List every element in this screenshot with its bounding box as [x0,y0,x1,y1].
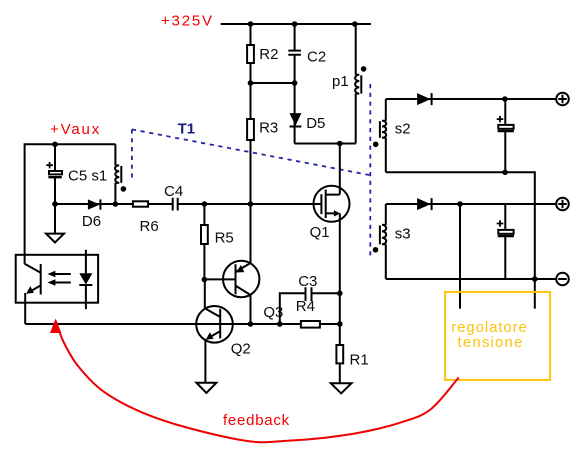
wire regulator right lead [534,279,536,309]
wire regulator left lead [459,204,461,309]
junction s2 cap top [502,96,508,102]
wire R2/R3 branch vertical [250,24,252,204]
feedback arrow curve [50,319,459,443]
wire C5 to ground [54,204,56,234]
wire primary bottom [295,143,356,145]
junction C3 left bottom [277,321,283,327]
resistor R3 [247,119,278,140]
svg-text:D5: D5 [306,115,325,132]
wire Q3 emitter [250,204,252,263]
terminal minus [556,273,569,286]
wire Q2 collector [204,280,206,309]
svg-text:C3: C3 [298,273,317,290]
diode s2 rectifier [417,93,432,105]
svg-text:C2: C2 [307,48,326,65]
svg-text:Q1: Q1 [310,224,330,241]
transformer core dashed diagonal [132,129,370,175]
wire R5 branch [203,204,205,280]
svg-text:Q2: Q2 [231,340,251,357]
wire Q1 drain [339,144,341,195]
svg-text:R2: R2 [259,46,278,63]
wire C2/D5 branch vertical [294,24,296,144]
wire s3 bottom [386,278,556,280]
svg-text:+325V: +325V [161,13,214,30]
resistor R4 [296,298,320,327]
svg-text:C4: C4 [164,183,183,200]
opto phototransistor [25,264,41,295]
wire +Vaux rail [25,144,116,264]
svg-text:tensione: tensione [458,334,524,351]
wire s2 top [386,98,556,100]
transistor Q2 [196,306,251,357]
junction Q3 collector bottom [248,321,254,327]
capacitor C5 [46,144,107,204]
terminal plus s2 [556,93,569,106]
junction C5-gnd [52,201,58,207]
wire +325V rail [221,23,371,25]
wire s3 top [386,203,556,205]
diode s3 rectifier [417,198,432,210]
junction R3 bottom [248,201,254,207]
transformer core dashed vertical left [131,129,133,182]
wire Q3 base [204,278,235,280]
transistor Q3 [223,261,283,321]
optocoupler box [16,255,98,303]
svg-text:D6: D6 [82,213,101,230]
junction top R2 [248,21,254,27]
junction R5 top [202,201,208,207]
wire gate net [55,203,321,205]
wire R2-C2 link [251,82,295,84]
wire Q1 source to R1 [339,213,341,383]
junction s3 regulator tap [457,201,463,207]
junction R5 bottom [202,277,208,283]
phase dot s3 [373,247,379,253]
opto LED [79,250,92,309]
junction R2-C2 left [248,80,254,86]
resistor R1 [336,345,368,368]
wire opto emitter to bottom rail [24,293,26,324]
terminal plus s3 [556,198,569,211]
svg-text:C5 s1: C5 s1 [68,167,107,184]
junction C3 right [337,291,343,297]
diode D5 [290,113,326,132]
svg-text:s3: s3 [395,226,411,243]
resistor R5 [201,225,234,246]
phase dot s2 [373,142,379,148]
wire Q2 emitter [204,339,206,383]
regulator box regolatore tensione [445,292,550,380]
junction drain-primary [337,141,343,147]
svg-text:p1: p1 [332,73,349,90]
svg-text:s2: s2 [395,121,411,138]
svg-text:R4: R4 [296,298,315,315]
capacitor C4 [164,183,183,211]
junction top C2 [292,21,298,27]
junction R2-C2 right [292,80,298,86]
phase dot p1 [361,66,367,72]
winding s1 [115,144,121,204]
mosfet Q1 [310,186,350,241]
wire bottom rail [25,323,340,325]
svg-text:R1: R1 [350,351,369,368]
capacitor C2 [288,48,326,65]
resistor R2 [247,45,278,63]
ground R1 [331,383,352,393]
junction C5 top [52,142,58,148]
wire Q3 collector [250,295,252,324]
junction s1 bottom [113,201,119,207]
svg-text:R3: R3 [259,119,278,136]
svg-text:feedback: feedback [223,412,290,429]
wire p1 leads [355,24,357,144]
wire C3 branch [280,293,340,324]
junction minus rail [532,276,538,282]
winding p1 [332,73,361,94]
capacitor s2 output [497,99,514,172]
phase dot s1 [121,186,127,192]
junction top p1 [352,21,358,27]
svg-text:T1: T1 [178,121,196,138]
capacitor s3 output [497,204,514,279]
ground Q2 [196,383,216,393]
svg-text:+Vaux: +Vaux [50,121,101,138]
svg-text:R5: R5 [215,229,234,246]
transformer core dashed vertical right [369,84,371,259]
ground C5 [46,234,64,243]
wire s2 bottom [386,172,535,279]
junction R4 right [337,321,343,327]
capacitor C3 [298,273,317,301]
winding s3 [380,204,411,279]
svg-text:R6: R6 [140,218,159,235]
winding s2 [380,99,411,172]
opto light arrows [47,271,70,286]
resistor R6 [133,201,159,235]
diode D6 [82,199,101,230]
junction s2 cap bottom [502,170,508,176]
